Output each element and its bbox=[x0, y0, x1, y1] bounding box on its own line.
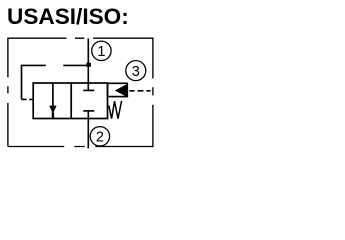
junction node on port 1 line bbox=[86, 63, 91, 67]
left position flow arrow (down) bbox=[49, 83, 56, 118]
svg-text:2: 2 bbox=[96, 130, 104, 146]
svg-text:3: 3 bbox=[132, 64, 140, 80]
svg-text:1: 1 bbox=[97, 44, 105, 60]
wire port 2 line bbox=[87, 111, 89, 148]
enclosure dashed boundary: right edge bbox=[152, 38, 154, 148]
pilot line (dashed) from node to valve left side bbox=[22, 65, 89, 100]
blocked port T (bottom, port 2) bbox=[83, 110, 94, 112]
enclosure dashed boundary: bottom edge bbox=[8, 146, 153, 148]
port circle 2 bbox=[90, 127, 109, 146]
valve body (two-position envelope) bbox=[33, 83, 107, 119]
spring W bbox=[109, 101, 122, 119]
title USASI/ISO: bbox=[7, 4, 129, 30]
dashed pilot line to boundary bbox=[129, 90, 150, 92]
port circle 1 bbox=[92, 41, 111, 60]
enclosure dashed boundary: top edge bbox=[8, 37, 153, 39]
wire port 1 line bbox=[87, 38, 89, 83]
enclosure dashed boundary: left edge bbox=[7, 38, 9, 147]
solenoid / pilot actuator box bbox=[108, 83, 128, 96]
valve position divider bbox=[70, 83, 72, 119]
blocked port T (top, port 1) bbox=[83, 83, 94, 90]
port circle 3 bbox=[126, 61, 146, 81]
pilot actuator triangle bbox=[115, 84, 127, 97]
